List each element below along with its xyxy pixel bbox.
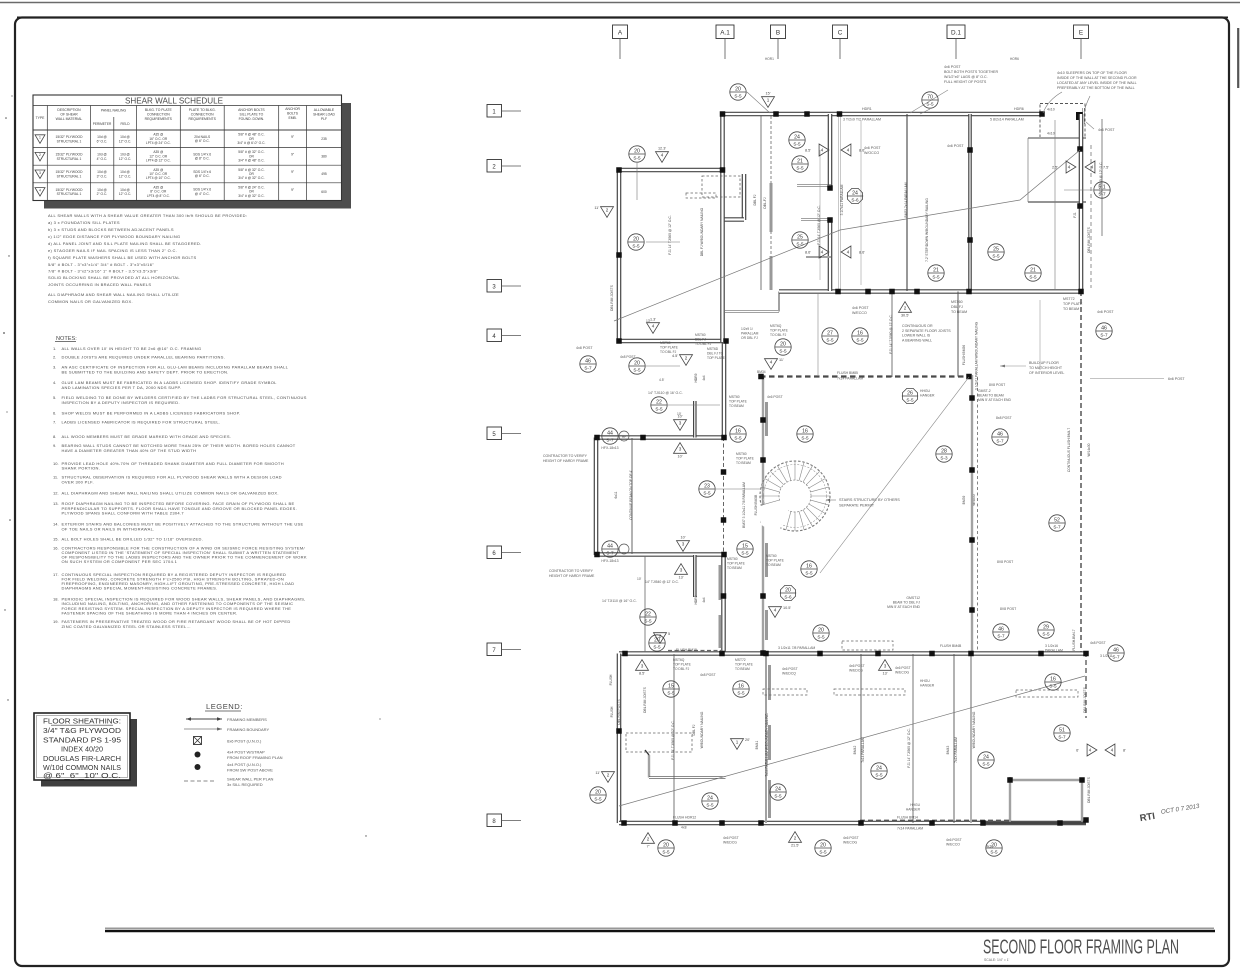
shear wall schedule table [33, 95, 342, 201]
svg-text:23: 23 [704, 483, 710, 489]
title block separator double line [105, 927, 1214, 929]
callout 20/S-6 [780, 585, 795, 600]
svg-text:a) 3 x FOUNDATION SILL PLAT: a) 3 x FOUNDATION SILL PLATES [48, 220, 120, 225]
svg-text:STRUCTURAL 1: STRUCTURAL 1 [57, 175, 82, 179]
svg-text:8.: 8. [53, 434, 56, 439]
svg-text:4x8: 4x8 [681, 826, 687, 830]
svg-text:S-5: S-5 [734, 93, 742, 98]
svg-text:3: 3 [492, 285, 496, 291]
shear-wall type 4 marker [647, 323, 660, 334]
svg-text:24: 24 [775, 786, 781, 792]
callout 22/S-5 [640, 609, 656, 625]
svg-text:46: 46 [1113, 647, 1119, 653]
shear-wall type 2 marker [789, 832, 802, 843]
floor sheathing box shadow [41, 780, 137, 787]
svg-text:HANGER: HANGER [920, 684, 935, 688]
grid line 7 [487, 643, 502, 656]
svg-text:PLYWOOD SPANS SHALL CONFORM: PLYWOOD SPANS SHALL CONFORM WITH TABLE 2… [62, 511, 185, 516]
svg-text:2: 2 [904, 306, 907, 311]
svg-text:20': 20' [745, 738, 750, 742]
adjacent sheet edge sliver top-right [1237, 28, 1239, 88]
svg-text:2: 2 [659, 634, 662, 639]
svg-text:6" O.C.: 6" O.C. [97, 139, 108, 143]
svg-text:DESCRIPTION: DESCRIPTION [57, 108, 81, 112]
svg-text:S-5: S-5 [926, 101, 934, 106]
svg-text:4x4 POST W/STRAP: 4x4 POST W/STRAP [227, 750, 265, 755]
svg-text:b) 3 x STUDS AND BLOCKS BE: b) 3 x STUDS AND BLOCKS BETWEEN ADJACENT… [48, 227, 174, 232]
svg-text:SHANK PORTION.: SHANK PORTION. [62, 466, 101, 471]
svg-text:7x14 PARALLAM: 7x14 PARALLAM [837, 377, 863, 381]
svg-text:2: 2 [607, 773, 610, 778]
bottom wall dashed beam portion [860, 820, 1010, 822]
svg-text:S-5: S-5 [1042, 631, 1050, 636]
long diagonal reference line upper [614, 150, 1080, 321]
svg-text:LPT4 @ 8" O.C.: LPT4 @ 8" O.C. [147, 194, 170, 198]
svg-text:7: 7 [492, 648, 496, 654]
bottom band top wall [619, 651, 1086, 656]
scan dust specks [5, 117, 7, 119]
svg-text:4: 4 [770, 360, 773, 365]
svg-text:1: 1 [39, 136, 41, 140]
svg-text:20: 20 [634, 360, 640, 366]
svg-text:495: 495 [321, 172, 327, 176]
L-shaped interior wall [648, 755, 650, 778]
callout 21/S-5 [1025, 265, 1041, 281]
mid horizontal bearing wall [779, 289, 1083, 294]
svg-text:16: 16 [1050, 676, 1056, 682]
svg-text:STRUCTURAL 1: STRUCTURAL 1 [57, 192, 82, 196]
svg-text:6x6 POST (U.N.O.): 6x6 POST (U.N.O.) [227, 739, 262, 744]
svg-text:A: A [618, 30, 623, 37]
svg-text:FLUSH BM4B: FLUSH BM4B [940, 644, 962, 648]
svg-text:FJ1 14' TJI560 @ 12" O.C.: FJ1 14' TJI560 @ 12" O.C. [817, 205, 821, 244]
svg-text:LADBS LICENSED FABRICATOR I: LADBS LICENSED FABRICATOR IS REQUIRED FO… [62, 420, 221, 425]
svg-text:51: 51 [1059, 727, 1065, 733]
svg-text:ON SUCH SYSTEM OR COMPONEN: ON SUCH SYSTEM OR COMPONENT PER SEC 1704… [62, 559, 178, 564]
spine flush beam dashed [723, 437, 725, 556]
svg-text:MIN 5' AT EACH END: MIN 5' AT EACH END [887, 605, 920, 609]
svg-text:6x11: 6x11 [614, 491, 618, 498]
svg-text:S-5: S-5 [932, 274, 940, 279]
grid line A.1 [716, 25, 734, 39]
svg-text:@ 4" O.C.: @ 4" O.C. [195, 192, 210, 196]
callout 46/S-7 [1096, 323, 1112, 339]
svg-text:22: 22 [645, 611, 651, 617]
svg-text:TOP PLATE: TOP PLATE [1063, 302, 1083, 306]
svg-text:HF: HF [622, 435, 626, 439]
grid line D.1 [947, 25, 965, 39]
svg-text:8.6': 8.6' [805, 251, 811, 255]
svg-text:ALL WALLS OVER 10' IN HEI: ALL WALLS OVER 10' IN HEIGHT TO BE 2x6 @… [62, 346, 202, 351]
svg-text:S-5: S-5 [992, 253, 1000, 258]
svg-text:FJ1 14" TJI560 @ 12' O.C.: FJ1 14" TJI560 @ 12' O.C. [889, 314, 893, 353]
svg-text:S-6: S-6 [784, 594, 792, 599]
callout 51/S-7 [1054, 725, 1070, 741]
svg-text:TOP PLATE: TOP PLATE [766, 559, 785, 563]
svg-text:B: B [776, 30, 780, 37]
svg-text:20: 20 [634, 148, 640, 154]
svg-text:4: 4 [652, 324, 655, 329]
svg-text:BOLTS: BOLTS [287, 112, 299, 116]
svg-text:BM41: BM41 [755, 741, 759, 750]
svg-text:2: 2 [685, 356, 688, 361]
svg-text:2.5': 2.5' [1052, 166, 1058, 170]
svg-text:20: 20 [633, 236, 639, 242]
svg-text:OF TOE NAILS OR NAILS IN: OF TOE NAILS OR NAILS IN WITHDRAWAL. [62, 526, 155, 531]
svg-text:13': 13' [646, 319, 651, 323]
shear-wall type 2 marker [602, 772, 615, 783]
svg-text:BUILD UP FLOOR: BUILD UP FLOOR [1029, 361, 1059, 365]
svg-text:5 8/2x14 PARALLAM: 5 8/2x14 PARALLAM [990, 118, 1024, 122]
svg-text:DBL RIM JOISTS: DBL RIM JOISTS [1087, 776, 1091, 803]
svg-text:STAIRS STRUCTURE BY OTHERS: STAIRS STRUCTURE BY OTHERS [839, 498, 900, 502]
svg-text:S-7: S-7 [1058, 734, 1066, 739]
svg-text:10d @: 10d @ [120, 188, 130, 192]
svg-text:3/4" # @ 32" O.C.: 3/4" # @ 32" O.C. [238, 194, 264, 198]
svg-text:LOWER WALL IS: LOWER WALL IS [902, 334, 931, 338]
svg-text:S-5: S-5 [706, 802, 714, 807]
svg-text:FLUSH BM36: FLUSH BM36 [962, 345, 966, 366]
svg-text:LPT4 @ 12" O.C.: LPT4 @ 12" O.C. [146, 159, 171, 163]
svg-text:COMMON NAILS OR GALVANIZED: COMMON NAILS OR GALVANIZED BOX. [48, 299, 133, 304]
svg-text:DBL FJ TO: DBL FJ TO [707, 352, 724, 356]
shear-wall type 4 marker [656, 152, 669, 163]
svg-text:TOP PLATE: TOP PLATE [727, 562, 746, 566]
svg-text:FLUSH.BM4.7: FLUSH.BM4.7 [1072, 629, 1076, 650]
svg-text:12" O.C.: 12" O.C. [119, 175, 132, 179]
svg-text:4" O.C.: 4" O.C. [97, 157, 108, 161]
svg-text:7x14 PARALLAM W/BOUNDARY NA: 7x14 PARALLAM W/BOUNDARY NAILING [765, 713, 769, 776]
svg-text:A.1: A.1 [720, 30, 730, 37]
svg-text:S-7: S-7 [996, 438, 1004, 443]
svg-text:FLOOR SHEATHING:: FLOOR SHEATHING: [43, 719, 121, 726]
svg-text:3 T/2x9 T/2 PARALLAM: 3 T/2x9 T/2 PARALLAM [843, 118, 881, 122]
step-down wall upper right room [968, 114, 972, 291]
svg-text:FLUSH BM85: FLUSH BM85 [837, 371, 858, 375]
callout 20/S-5 [629, 146, 645, 162]
svg-text:MST60: MST60 [727, 557, 738, 561]
svg-text:S-5: S-5 [632, 243, 640, 248]
svg-text:CONNECTION: CONNECTION [191, 113, 214, 117]
svg-text:TO BEAM: TO BEAM [951, 310, 967, 314]
svg-text:S-5: S-5 [1029, 274, 1037, 279]
svg-text:HDR1: HDR1 [862, 107, 872, 111]
svg-text:S-7: S-7 [997, 633, 1005, 638]
svg-text:14' TJI560 @ 12" O.C.: 14' TJI560 @ 12" O.C. [1099, 161, 1103, 194]
svg-text:MST60: MST60 [736, 452, 747, 456]
callout 16/S-5 [852, 328, 868, 344]
svg-text:S-7: S-7 [1112, 654, 1120, 659]
svg-text:BM37 3 1/2x11 7/8 PARALLA: BM37 3 1/2x11 7/8 PARALLAM [742, 482, 746, 528]
svg-text:1/2x9 1/: 1/2x9 1/ [741, 327, 753, 331]
svg-text:2: 2 [39, 153, 41, 157]
svg-text:7': 7' [647, 845, 650, 849]
top-left room walls [619, 168, 724, 173]
svg-text:FIELD: FIELD [120, 122, 130, 126]
callout 20/S-5 [986, 840, 1002, 856]
callout 29/S-5 [1038, 622, 1054, 638]
svg-text:W/14x30: W/14x30 [1087, 443, 1091, 456]
svg-text:3/4" # @ 48" O.C.: 3/4" # @ 48" O.C. [238, 159, 264, 163]
svg-text:S-7: S-7 [606, 550, 614, 555]
svg-text:HOR1: HOR1 [765, 57, 774, 61]
callout 46/S-7 [993, 624, 1009, 640]
svg-text:DOUGLAS FIR-LARCH: DOUGLAS FIR-LARCH [43, 754, 121, 763]
grid line E [1074, 25, 1089, 39]
svg-text:FJ1 14' TJI560 @ 12" O.C.: FJ1 14' TJI560 @ 12" O.C. [668, 215, 672, 254]
svg-text:AND LAMINATION SPECIES PER: AND LAMINATION SPECIES PER T DA, 2000 ND… [62, 385, 182, 390]
hall shear wall hatches [765, 402, 768, 436]
svg-text:BM34: BM34 [757, 370, 766, 374]
svg-text:STRUCTURAL 1: STRUCTURAL 1 [57, 157, 82, 161]
svg-text:TO BEAM: TO BEAM [735, 667, 750, 671]
svg-text:S-5: S-5 [801, 435, 809, 440]
callout 20/S-5 [658, 840, 674, 856]
svg-text:BM39: BM39 [962, 496, 966, 505]
svg-text:ANCHOR: ANCHOR [285, 107, 300, 111]
shear-wall type 2 marker [601, 207, 614, 218]
schedule row type 2 [35, 152, 45, 161]
svg-text:FLUSH BM19: FLUSH BM19 [676, 648, 697, 652]
mid-right verticals [891, 291, 893, 377]
callout 15/S-5 [663, 681, 679, 697]
svg-text:FLUSH BM3B: FLUSH BM3B [754, 494, 758, 516]
shear-wall type 2 marker [642, 833, 655, 844]
left wing walls [596, 435, 726, 440]
svg-text:CONTINUE BEAM ON TOP OF 4: CONTINUE BEAM ON TOP OF 4' [629, 470, 633, 520]
svg-text:DBL-FJ: DBL-FJ [763, 197, 767, 209]
svg-text:24: 24 [876, 765, 882, 771]
svg-text:8V8 POST: 8V8 POST [997, 560, 1013, 564]
svg-text:15/32" PLYWOOD: 15/32" PLYWOOD [56, 153, 84, 157]
svg-text:SECOND FLOOR FRAMING PLAN: SECOND FLOOR FRAMING PLAN [983, 936, 1179, 959]
svg-text:4: 4 [847, 250, 850, 255]
svg-text:D.1: D.1 [951, 30, 961, 37]
grid line A [613, 25, 628, 39]
flush beam BM85 dashed [760, 375, 969, 377]
svg-text:LPT4 @ 24" O.C.: LPT4 @ 24" O.C. [146, 141, 171, 145]
svg-text:1: 1 [492, 110, 496, 116]
svg-text:3" O.C.: 3" O.C. [97, 175, 108, 179]
svg-text:3 1/2x11 7/8 PARALLAM: 3 1/2x11 7/8 PARALLAM [778, 646, 815, 650]
svg-text:TOP PLATE: TOP PLATE [673, 663, 692, 667]
svg-text:70: 70 [927, 94, 933, 100]
svg-text:4x6 POST: 4x6 POST [852, 306, 869, 310]
svg-text:S-5: S-5 [633, 367, 641, 372]
double wall at C [839, 114, 841, 291]
svg-text:HHGU: HHGU [910, 803, 920, 807]
4x10 dashed box top right [1040, 104, 1085, 139]
svg-text:S-5: S-5 [796, 241, 804, 246]
svg-text:HFX-18x13: HFX-18x13 [601, 559, 618, 563]
svg-text:S-5: S-5 [633, 155, 641, 160]
svg-text:HOR6: HOR6 [1010, 57, 1019, 61]
callout 16/S-5 [797, 426, 813, 442]
svg-text:CONTRACTOR TO VERIFY: CONTRACTOR TO VERIFY [549, 569, 594, 573]
svg-text:HDR6: HDR6 [1014, 107, 1024, 111]
svg-text:CONNECTION: CONNECTION [147, 113, 170, 117]
bottom-left block walls [617, 654, 622, 824]
balcony lower edge top right [1028, 201, 1086, 203]
grid line 2 [487, 160, 502, 173]
svg-text:15.: 15. [53, 537, 59, 542]
svg-text:PARALLAM: PARALLAM [741, 332, 759, 336]
svg-text:A BEARING WALL: A BEARING WALL [902, 338, 932, 342]
svg-text:HDR9: HDR9 [694, 595, 698, 604]
svg-text:7.5': 7.5' [1103, 166, 1109, 170]
svg-text:15': 15' [766, 92, 771, 96]
svg-text:14' TJI110 @ 16" O.C.: 14' TJI110 @ 16" O.C. [602, 599, 637, 603]
svg-text:7.2' STEP/DOWN W/BOUNDARY R: 7.2' STEP/DOWN W/BOUNDARY RAILING [925, 198, 929, 262]
svg-text:2: 2 [492, 165, 496, 171]
grid line C [833, 25, 848, 39]
svg-text:FOUND. DOWN.: FOUND. DOWN. [239, 117, 265, 121]
svg-text:14" TJI110 @ 16' O.C.: 14" TJI110 @ 16' O.C. [648, 391, 683, 395]
svg-text:8': 8' [1123, 749, 1126, 753]
svg-text:SHOP WELDS MUST BE PERFORM: SHOP WELDS MUST BE PERFORMED IN A LADBS … [62, 411, 241, 416]
callout 20/S-5 [815, 840, 831, 856]
svg-text:7.: 7. [53, 420, 56, 425]
shear-wall type 3 marker [879, 660, 892, 671]
svg-text:MST60: MST60 [695, 333, 706, 337]
date stamp RTI OCT 07 2013 [1139, 803, 1202, 824]
svg-text:S-5: S-5 [817, 634, 825, 639]
spine wall upper [720, 114, 725, 171]
svg-text:BE SUBMITTED TO THE BUILDI: BE SUBMITTED TO THE BUILDING AND SAFETY … [62, 369, 229, 374]
svg-text:CONTINUOUS FLUSH BM4.7: CONTINUOUS FLUSH BM4.7 [1067, 428, 1071, 472]
svg-text:ALL BOLT HOLES SHALL BE D: ALL BOLT HOLES SHALL BE DRILLED 1/32" TO… [62, 537, 204, 542]
callout 46/S-7 [580, 356, 596, 372]
svg-text:FASTENER SPACING OF THE SH: FASTENER SPACING OF THE SHEATHING IS MOR… [62, 611, 238, 616]
svg-text:BM43: BM43 [946, 746, 950, 755]
svg-text:9.: 9. [53, 443, 56, 448]
top exterior wall [720, 112, 1042, 117]
svg-text:S-5: S-5 [805, 570, 813, 575]
stair landing walls [742, 174, 747, 220]
svg-text:13': 13' [679, 576, 684, 580]
svg-text:24: 24 [852, 190, 858, 196]
shear-wall type 3 marker [636, 660, 649, 671]
svg-text:DBL RIM JOISTS: DBL RIM JOISTS [643, 686, 647, 713]
svg-text:12" O.C.: 12" O.C. [119, 139, 132, 143]
svg-text:DBL RIM JOISTS: DBL RIM JOISTS [610, 284, 614, 311]
svg-text:4: 4 [661, 153, 664, 158]
svg-text:FRAMING MEMBERS: FRAMING MEMBERS [227, 717, 267, 722]
svg-text:3: 3 [641, 664, 644, 669]
callout 25/S-5 [792, 232, 808, 248]
callout 44/S-7 [602, 541, 618, 557]
svg-text:44: 44 [607, 543, 613, 549]
svg-text:INSPECTION BY A DEPUTY INS: INSPECTION BY A DEPUTY INSPECTOR IS REQU… [62, 400, 180, 405]
svg-text:11.: 11. [53, 475, 58, 480]
svg-text:HHGU: HHGU [920, 389, 931, 393]
svg-text:29: 29 [1043, 624, 1049, 630]
hall left wall mid [722, 342, 727, 437]
svg-text:HEIGHT OF HARDY FRAME: HEIGHT OF HARDY FRAME [543, 459, 589, 463]
callout 16/S-5 [730, 426, 746, 442]
svg-text:4x4: 4x4 [702, 597, 706, 602]
svg-text:3/4" # @ 32" O.C.: 3/4" # @ 32" O.C. [238, 176, 264, 180]
svg-text:W/OCCO: W/OCCO [864, 151, 879, 155]
svg-text:W/ECOG: W/ECOG [843, 841, 857, 845]
svg-text:20: 20 [820, 842, 826, 848]
callout 21/S-5 [792, 156, 808, 172]
shear-wall type 1 marker [762, 97, 775, 108]
callout 24/S-6 [847, 188, 862, 203]
svg-text:WALL MATERIAL: WALL MATERIAL [56, 117, 83, 121]
svg-text:4x6 POST: 4x6 POST [723, 836, 739, 840]
beam BM33 [906, 114, 908, 291]
svg-text:10.5': 10.5' [783, 606, 791, 610]
svg-text:20: 20 [663, 842, 669, 848]
schedule row type 4 [35, 188, 45, 197]
svg-text:TOP PLATE: TOP PLATE [770, 329, 789, 333]
svg-text:1: 1 [736, 740, 739, 745]
svg-text:600: 600 [321, 190, 327, 194]
shear-wall type 3 marker [675, 564, 688, 575]
svg-text:OF INTERIOR LEVEL: OF INTERIOR LEVEL [1029, 371, 1064, 375]
svg-text:4: 4 [1091, 165, 1094, 170]
svg-text:S-5: S-5 [737, 690, 745, 695]
svg-text:S-5: S-5 [875, 772, 883, 777]
svg-text:16: 16 [735, 428, 741, 434]
shear-wall type 2 marker [654, 633, 667, 644]
dashed floor openings [626, 733, 692, 752]
svg-text:S-6: S-6 [851, 197, 859, 202]
svg-text:15: 15 [668, 683, 674, 689]
svg-text:ALL DIAPHRAGM AND SHEAR WA: ALL DIAPHRAGM AND SHEAR WALL NAILING SHA… [62, 491, 279, 496]
svg-text:21: 21 [1030, 267, 1036, 273]
svg-text:4x6 POST: 4x6 POST [767, 395, 783, 399]
shear-wall type 3 marker [677, 541, 690, 552]
svg-text:17.: 17. [53, 572, 59, 577]
svg-text:7x14 PARALLAM: 7x14 PARALLAM [897, 827, 923, 831]
svg-text:2 SEPARATE FLOOR JOISTS: 2 SEPARATE FLOOR JOISTS [902, 329, 951, 333]
callout 46/S-7 [1108, 645, 1124, 661]
grid line B [771, 25, 786, 39]
svg-text:3: 3 [680, 568, 683, 573]
svg-text:3: 3 [884, 664, 887, 669]
schedule row type 3 [35, 170, 45, 179]
svg-text:STRUCTURAL 1: STRUCTURAL 1 [57, 139, 82, 143]
svg-text:NOTES:: NOTES: [56, 336, 77, 342]
svg-text:11': 11' [594, 206, 599, 210]
callout 25/S-5 [988, 244, 1004, 260]
svg-text:4: 4 [821, 250, 824, 255]
svg-text:S-5: S-5 [653, 644, 661, 649]
svg-text:d) ALL PANEL JOINT AND SI: d) ALL PANEL JOINT AND SILL PLATE NAILIN… [48, 241, 202, 246]
svg-text:S-5: S-5 [990, 849, 998, 854]
svg-text:HEIGHT OF HARDY FRAME: HEIGHT OF HARDY FRAME [549, 574, 595, 578]
schedule row type 1 [35, 135, 45, 144]
svg-text:4x6 POST: 4x6 POST [946, 838, 962, 842]
svg-text:@ 8" O.C.: @ 8" O.C. [195, 157, 210, 161]
svg-text:PLF: PLF [321, 117, 327, 121]
svg-text:FLUSH HDR12: FLUSH HDR12 [673, 816, 696, 820]
svg-text:20: 20 [780, 341, 786, 347]
svg-text:SHEAR WALL SCHEDULE: SHEAR WALL SCHEDULE [125, 96, 224, 105]
svg-text:TO BEAM: TO BEAM [729, 404, 744, 408]
svg-text:24: 24 [983, 754, 989, 760]
callout 27/S-5 [822, 328, 838, 344]
svg-text:4x6 POST: 4x6 POST [1098, 128, 1115, 132]
svg-text:2" O.C.: 2" O.C. [97, 192, 108, 196]
svg-text:16.: 16. [53, 545, 59, 550]
svg-text:5/8" # BOLT - 3"x3"x1/4": 5/8" # BOLT - 3"x3"x1/4" 3/4" # BOLT - 3… [48, 262, 154, 267]
svg-text:10d @: 10d @ [120, 170, 130, 174]
svg-text:46: 46 [1101, 325, 1107, 331]
callout 16/S-5 [1045, 674, 1061, 690]
